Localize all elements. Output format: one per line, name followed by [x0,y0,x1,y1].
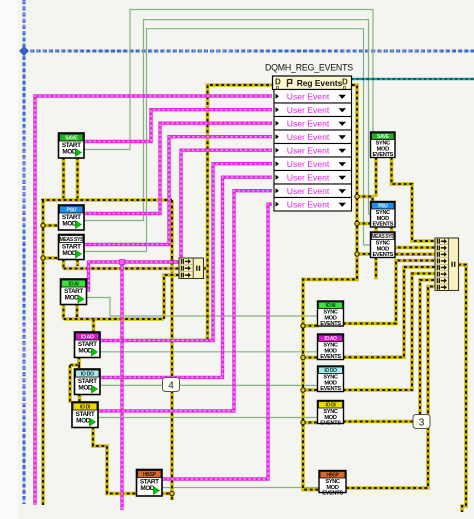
wire event-reg refnum out [351,78,474,81]
svg-text:IO AO: IO AO [325,336,337,342]
wire module elbow to PSU SYNC top [357,197,373,203]
wire class IO AO to row6 [100,164,272,341]
svg-text:EVENTS: EVENTS [322,491,343,497]
wire module stub IO DO SYNC [303,388,319,392]
svg-text:MOD: MOD [62,250,76,257]
subVI PSU Start Module [59,205,85,230]
wire module elbow to MEASSYS SYNC left [357,252,372,256]
svg-text:User Event: User Event [287,159,330,169]
wire boolean MEASSYS Module Running [84,29,371,252]
wire module stub IO AO SYNC [303,356,319,360]
wire module IO DO SYNC out to build row6 [343,274,435,391]
svg-text:DQMH_REG_EVENTS: DQMH_REG_EVENTS [265,63,353,73]
wire module IO AO top feed [92,319,96,333]
wire module IO AI bottom chain [62,303,66,319]
subVI HBSP Start Module [137,470,163,497]
subVI IO AI Start Module [61,279,87,305]
wire module SAVE SYNC bottom stubs [374,157,378,197]
wire class IO AI to row5 [87,150,272,290]
svg-text:MOD: MOD [65,294,79,301]
svg-text:IO AO: IO AO [81,334,94,340]
svg-text:EVENTS: EVENTS [320,321,341,327]
svg-text:MOD: MOD [78,347,92,354]
wire blue-ref vertical [23,0,26,504]
wire boolean IO DO Module Running [100,384,318,386]
wire module left bus x43 [41,200,45,505]
svg-text:User Event: User Event [287,200,330,210]
svg-text:IO DI: IO DI [326,403,337,409]
subVI PSU Sync Module Events [371,202,396,228]
subVI SAVE Sync Module Events [371,132,396,158]
subVI MEASSYS Start Module [59,235,85,260]
wire module riser to build row3 [164,275,179,319]
wire boolean SAVE Module Running [84,10,373,150]
svg-text:MOD: MOD [62,220,76,227]
label wire count 4 [163,378,180,392]
junction [120,260,125,265]
wire module HBSP SYNC out to build row8 [346,287,435,489]
svg-text:EVENTS: EVENTS [320,421,341,427]
wire class IO DO to row7 [100,177,272,377]
svg-text:SAVE: SAVE [65,135,78,141]
junction [41,223,45,227]
wire module feed build row1 [172,260,179,264]
wire boolean HBSP Module Running [162,487,320,489]
subVI SAVE Start Module [59,133,85,158]
wire module elbow to PSU SYNC left [357,222,372,226]
node blue wire junction [19,46,29,56]
wire module bus horizontal y200 [41,198,172,202]
subVI IO DI Start Module [72,402,98,428]
wire boolean PSU Module Running [84,20,371,221]
svg-text:MEAS SYS: MEAS SYS [59,237,84,243]
svg-text:MOD: MOD [62,148,76,155]
svg-text:User Event: User Event [287,146,330,156]
wire boolean IO AO Module Running [100,351,318,353]
wire boolean IO DI Module Running [98,417,318,419]
svg-text:IO DO: IO DO [81,371,94,377]
svg-text:EVENTS: EVENTS [320,386,341,392]
svg-text:PSU: PSU [378,204,388,210]
svg-text:MOD: MOD [76,417,90,424]
wire module PSU SYNC bottom stubs [374,226,378,254]
wire blue-ref horizontal [24,50,474,53]
subVI IO DI Sync Module Events [318,401,344,427]
wire module IO AO SYNC out to build row5 [343,267,435,357]
wire class IO DI to row8 [98,191,272,411]
wire module IO DI SYNC out to build row7 [343,280,435,422]
svg-text:3: 3 [419,417,425,428]
wire module stub IO AI SYNC [303,324,319,328]
wire module chain run y319 to build riser [64,317,165,321]
wire class PSU to row3 [84,123,272,213]
wire module stub into IO DO top [77,365,81,370]
svg-text:MOD: MOD [78,384,92,391]
wire class HBSP to row9 [162,204,272,479]
wire module MEASSYS bottom stubs to y268.5 run [62,259,66,269]
subVI IO AI Sync Module Events [318,301,344,327]
subVI MEASSYS Sync Module Events [371,232,396,258]
wire module stub to MEASSYS [43,256,60,260]
wire module reg-events right bus x357 [303,85,357,490]
svg-text:HBSP: HBSP [326,473,339,479]
wire module MEASSYS SYNC stubs [374,257,378,279]
svg-text:EVENTS: EVENTS [372,222,393,228]
svg-text:User Event: User Event [287,105,330,115]
svg-text:User Event: User Event [287,186,330,196]
junction HBSP bottom [170,491,174,495]
svg-text:User Event: User Event [287,173,330,183]
wire module stub to PSU [43,224,60,228]
wire module small build array output [203,267,208,271]
svg-text:IO AI: IO AI [326,303,336,309]
svg-text:User Event: User Event [287,92,330,102]
svg-text:Reg Events: Reg Events [297,78,343,88]
wire module long run y268.5 to build array [64,267,180,271]
svg-text:MOD: MOD [140,485,154,492]
svg-text:SAVE: SAVE [377,134,390,140]
svg-text:PSU: PSU [67,207,77,213]
wire module stub IO DI SYNC [303,421,319,425]
node build array (8 modules) [435,238,459,291]
svg-text:4: 4 [168,380,174,391]
wire class row1 from bottom crop [35,96,272,505]
label wire count 3 [413,415,430,429]
wire module IO AI SYNC out to build row4 [343,261,435,324]
svg-text:EVENTS: EVENTS [320,354,341,360]
wire module bus x207.5 to Reg Events header [208,85,274,340]
svg-text:EVENTS: EVENTS [372,152,393,158]
svg-text:IO AI: IO AI [69,281,80,287]
subVI HBSP Sync Module Events [319,471,346,497]
wire module build array output [458,265,466,512]
wire boolean IO AI Module Running [87,298,318,317]
junction [41,256,45,260]
node Reg Events rows: User Event x9 [274,90,352,104]
wire class MEASSYS to row4 [84,137,272,245]
subVI IO AO Sync Module Events [318,334,344,360]
node build array (3 modules) [179,258,204,279]
svg-text:User Event: User Event [287,119,330,129]
subVI IO DO Start Module [75,369,101,395]
wire class SAVE to row2 [84,110,272,142]
wire module chain IO AO to IO DI [68,365,72,403]
subVI IO DO Sync Module Events [318,366,344,392]
svg-text:MEAS SYS: MEAS SYS [371,234,395,240]
svg-text:HBSP: HBSP [143,472,157,478]
svg-text:IO DI: IO DI [80,404,91,410]
subVI IO AO Start Module [75,332,101,358]
svg-text:IO DO: IO DO [324,368,337,374]
wire class branch down x122 [120,262,123,510]
wire module SAVE bottom stubs [62,157,66,200]
svg-text:User Event: User Event [287,132,330,142]
wire module IO DI to HBSP stair [93,427,172,494]
wire module bus x172 down past HBSP [170,200,174,500]
wire module IO AO bottom chain [77,357,81,366]
svg-text:EVENTS: EVENTS [372,252,393,258]
wire module IO DO to IO DI stub [78,394,82,404]
